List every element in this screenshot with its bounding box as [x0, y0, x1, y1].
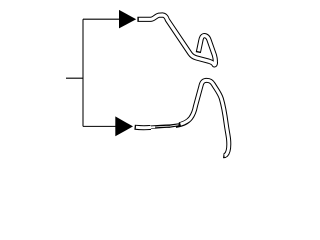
part 2 tube bore: open end near arrow — [136, 126, 151, 129]
part 2 pinched mid-section upper relief — [150, 123, 179, 125]
wire: leader top branch — [83, 18, 120, 20]
part 1 tube outline — [137, 15, 215, 65]
part 2 tube bore: pinched mid-section core — [150, 125, 179, 128]
part 2 tube outline — [135, 80, 229, 155]
part 1 tube bore (white core) — [139, 15, 216, 65]
part 2 tube bore: bend, riser, top bend, descent and hook — [181, 80, 229, 155]
wire: leader bottom branch — [83, 125, 117, 127]
arrowhead: top leader arrow — [119, 10, 136, 29]
arrowhead: bottom leader arrow — [115, 116, 133, 136]
part 2: lower wire clip (tube with hooked end) — [135, 80, 229, 155]
wire: leader middle stub — [66, 77, 83, 79]
part 2 pinched mid-section lower relief — [151, 128, 176, 130]
part 1: upper wire clip (tube with triangular loop) — [137, 15, 215, 65]
wire: leader bracket vertical segment — [82, 19, 84, 126]
part 2 tube bore: taper into pinched mid-section — [150, 126, 156, 128]
